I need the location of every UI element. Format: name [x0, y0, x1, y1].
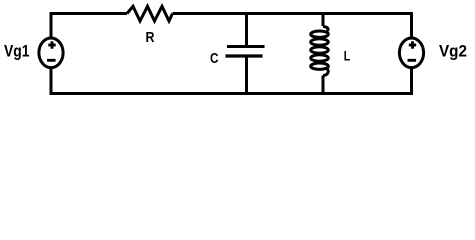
svg-text:L: L [344, 48, 351, 64]
svg-text:Vg1: Vg1 [4, 41, 30, 60]
svg-text:R: R [146, 30, 155, 46]
svg-text:Vg2: Vg2 [439, 41, 467, 60]
svg-text:C: C [210, 51, 219, 67]
